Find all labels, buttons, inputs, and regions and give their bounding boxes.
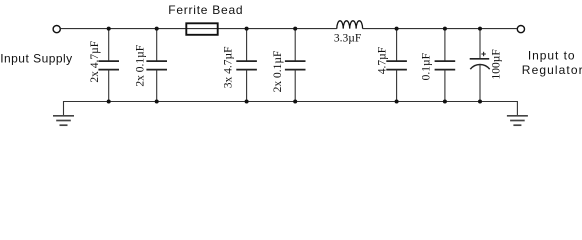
capacitor C2 bbox=[146, 29, 167, 102]
junction dot bottom C5 bbox=[395, 100, 399, 104]
label Input to Regulator bbox=[522, 48, 582, 77]
capacitor C4 bbox=[285, 29, 306, 102]
svg-text:2x 4.7µF: 2x 4.7µF bbox=[89, 41, 101, 83]
capacitor C5 bbox=[386, 29, 407, 102]
svg-text:Ferrite Bead: Ferrite Bead bbox=[168, 3, 243, 17]
junction dot top C5 bbox=[395, 27, 399, 31]
junction dot bottom C6 bbox=[443, 100, 447, 104]
wire top rail left segment bbox=[61, 28, 337, 30]
junction dot bottom C2 bbox=[155, 100, 159, 104]
svg-text:3x 4.7µF: 3x 4.7µF bbox=[223, 46, 235, 88]
wire bottom rail bbox=[64, 102, 518, 116]
ferrite bead FB1 bbox=[186, 23, 217, 35]
junction dot bottom C1 bbox=[107, 100, 111, 104]
junction dot top C7 bbox=[478, 27, 482, 31]
terminal J2 output bbox=[517, 26, 524, 33]
terminal J1 input bbox=[53, 26, 60, 33]
capacitor C7 polarized bbox=[470, 29, 490, 102]
svg-text:4.7µF: 4.7µF bbox=[377, 47, 389, 74]
svg-text:0.1µF: 0.1µF bbox=[420, 53, 432, 80]
junction dot top C2 bbox=[155, 27, 159, 31]
svg-text:3.3µF: 3.3µF bbox=[334, 33, 361, 45]
svg-text:Input to: Input to bbox=[528, 48, 576, 62]
junction dot top C6 bbox=[443, 27, 447, 31]
svg-text:100µF: 100µF bbox=[490, 49, 502, 79]
junction dot top C1 bbox=[107, 27, 111, 31]
capacitor C6 bbox=[435, 29, 456, 102]
junction dot top C4 bbox=[293, 27, 297, 31]
ground left bbox=[53, 116, 74, 125]
svg-text:2x 0.1µF: 2x 0.1µF bbox=[272, 51, 284, 93]
capacitor C1 bbox=[98, 29, 119, 102]
capacitor C3 bbox=[236, 29, 257, 102]
plus sign C7 polarity bbox=[481, 52, 485, 56]
junction dot bottom C4 bbox=[293, 100, 297, 104]
junction dot bottom C3 bbox=[245, 100, 249, 104]
svg-text:Regulator: Regulator bbox=[522, 63, 582, 77]
wire top rail right segment bbox=[363, 28, 517, 30]
junction dot top C3 bbox=[245, 27, 249, 31]
svg-text:Input Supply: Input Supply bbox=[0, 52, 72, 66]
junction dot bottom C7 bbox=[478, 100, 482, 104]
inductor L1 bbox=[337, 21, 363, 29]
svg-text:2x 0.1µF: 2x 0.1µF bbox=[135, 45, 147, 87]
ground right bbox=[507, 116, 528, 125]
